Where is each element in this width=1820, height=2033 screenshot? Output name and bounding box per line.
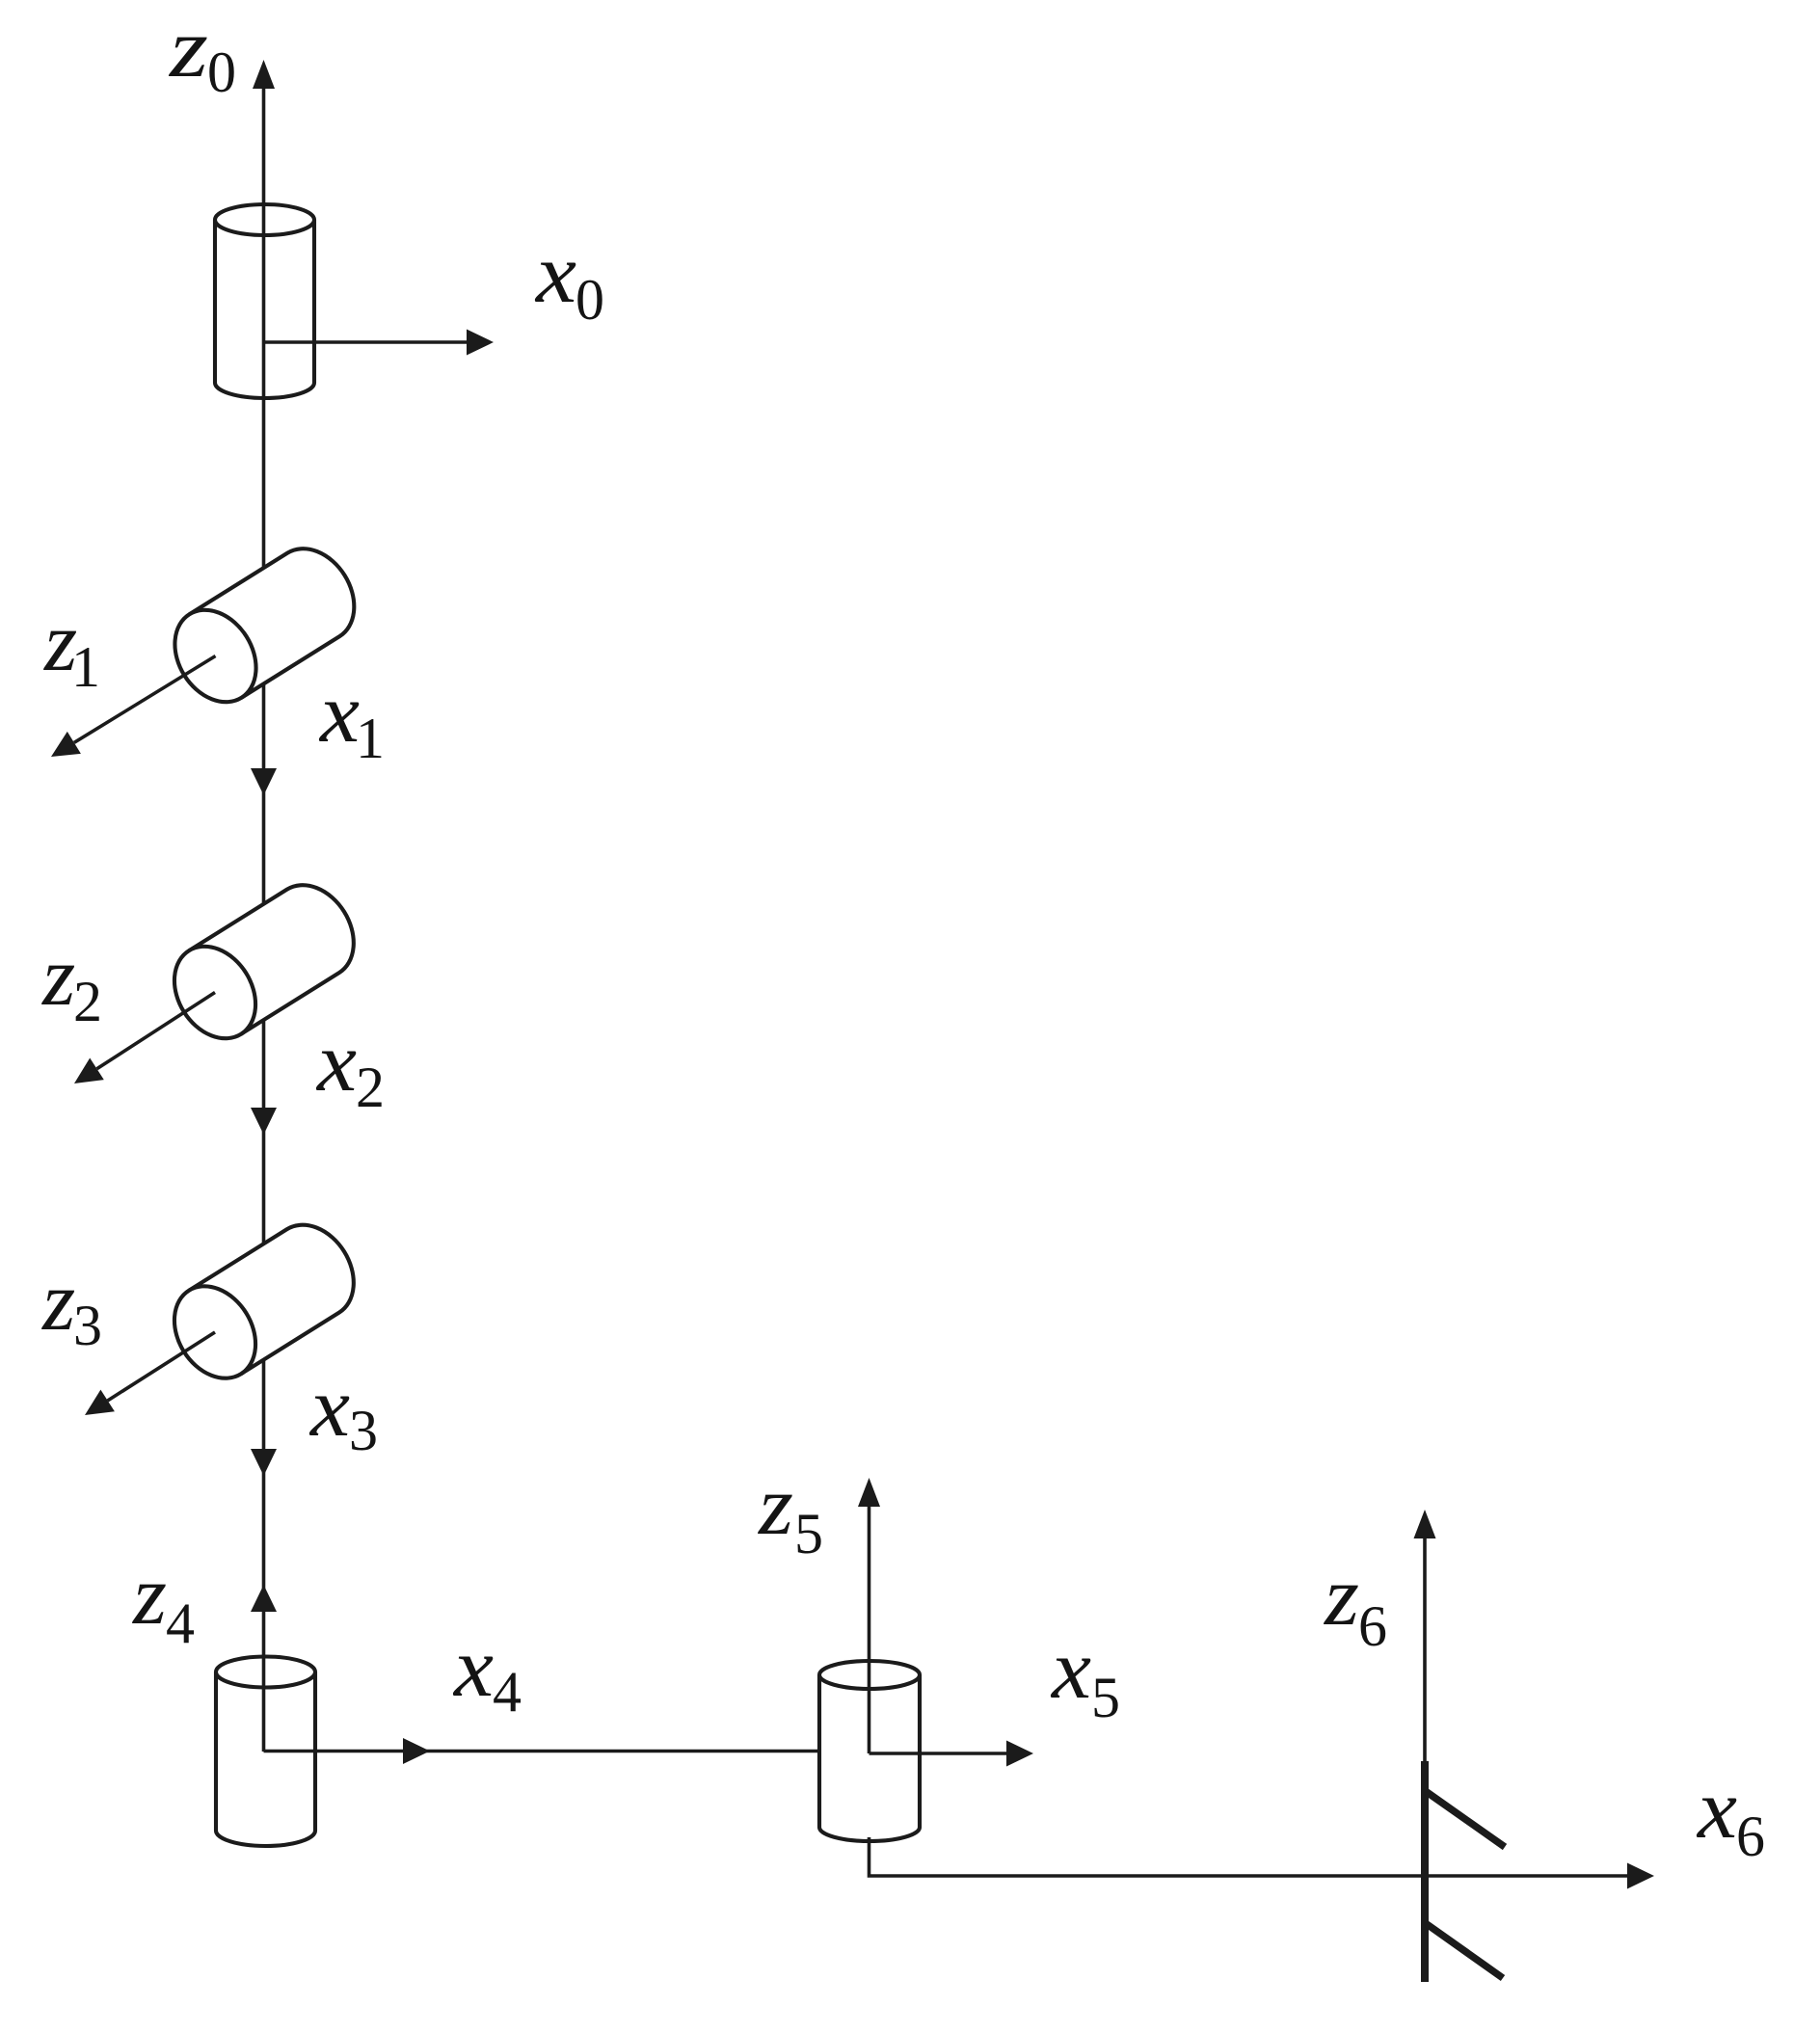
joint J1 cylinder (base, revolute about z0) [215, 204, 314, 398]
x5 label [1050, 1623, 1120, 1729]
joint J2 cylinder (revolute about z1) [158, 534, 370, 717]
z6 label [1324, 1550, 1387, 1658]
z1 axis arrow [51, 656, 216, 758]
svg-text:6: 6 [1736, 1805, 1765, 1868]
z2 axis arrow [74, 993, 215, 1084]
z5 axis line [868, 1506, 871, 1753]
svg-text:z: z [41, 1255, 75, 1349]
svg-text:z: z [1324, 1550, 1359, 1644]
x1 arrowhead (down along chain) [251, 768, 277, 795]
svg-text:x: x [1696, 1763, 1737, 1857]
svg-text:3: 3 [73, 1294, 102, 1357]
svg-text:2: 2 [356, 1056, 385, 1119]
joint J3 cylinder (revolute about z2) [158, 870, 370, 1054]
svg-text:1: 1 [356, 707, 385, 770]
svg-text:x: x [534, 227, 576, 321]
x4 axis line (link 4-5) [264, 1750, 823, 1753]
svg-text:x: x [315, 1016, 357, 1110]
x0 arrowhead [467, 330, 494, 356]
z4 label [132, 1549, 195, 1655]
svg-text:4: 4 [493, 1660, 522, 1724]
joint J5 cylinder (revolute about z4) [216, 1657, 315, 1847]
joint J4 cylinder (revolute about z3) [158, 1210, 370, 1393]
svg-text:z: z [41, 930, 75, 1024]
svg-text:3: 3 [349, 1399, 378, 1462]
x1 label [318, 667, 385, 770]
x5 axis line [870, 1752, 1009, 1755]
x6 label [1696, 1763, 1765, 1868]
svg-text:z: z [758, 1459, 793, 1553]
z5 arrowhead [858, 1478, 880, 1507]
svg-text:z: z [132, 1549, 167, 1643]
z0 label [169, 2, 236, 104]
wire link 5-6 and x6 axis line [870, 1837, 1630, 1876]
svg-text:4: 4 [166, 1592, 195, 1655]
x5 arrowhead [1006, 1741, 1033, 1767]
end-effector tick 1 [1427, 1792, 1505, 1847]
svg-text:6: 6 [1358, 1594, 1387, 1658]
x4 label [452, 1621, 522, 1724]
svg-text:x: x [1050, 1623, 1091, 1717]
svg-text:z: z [169, 2, 208, 95]
x2 label [315, 1016, 385, 1119]
svg-text:x: x [318, 667, 360, 761]
z3 label [41, 1255, 102, 1357]
z2 label [41, 930, 102, 1033]
svg-text:5: 5 [794, 1502, 823, 1565]
svg-text:0: 0 [575, 268, 604, 332]
svg-text:x: x [452, 1621, 494, 1715]
z0 axis line / links 1-4 common normal (vertical) [262, 87, 266, 1752]
z4 arrowhead (up along chain) [251, 1585, 277, 1612]
z5 label [758, 1459, 823, 1565]
x3 label [308, 1361, 378, 1462]
joint J6 cylinder (revolute about z5) [819, 1661, 920, 1841]
z1 label [43, 596, 100, 699]
svg-text:0: 0 [207, 40, 236, 104]
x0 axis line [264, 340, 469, 344]
end-effector mount bar on frame 6 [1421, 1761, 1429, 1982]
x0 label [534, 227, 604, 332]
svg-text:2: 2 [73, 970, 102, 1033]
svg-text:x: x [308, 1361, 350, 1455]
z6 arrowhead [1414, 1510, 1436, 1538]
x3 arrowhead (down along chain) [251, 1449, 277, 1476]
x2 arrowhead (down along chain) [251, 1108, 277, 1135]
z0 arrowhead [253, 60, 275, 89]
z6 axis line [1423, 1537, 1427, 1766]
x6 arrowhead [1627, 1863, 1654, 1889]
z3 axis arrow [85, 1332, 215, 1415]
x4 arrowhead (mid-line) [403, 1738, 430, 1764]
svg-text:1: 1 [71, 635, 100, 699]
svg-text:5: 5 [1091, 1666, 1120, 1729]
end-effector tick 2 [1427, 1924, 1503, 1978]
